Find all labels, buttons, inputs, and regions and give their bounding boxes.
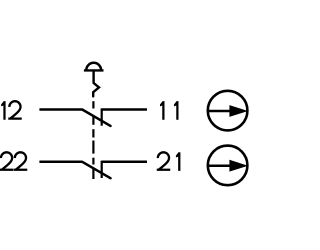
wire terminal 22 xyxy=(39,161,82,164)
terminal label 21 xyxy=(157,152,181,171)
fixed contact bar xyxy=(101,108,103,125)
terminal label 12 xyxy=(1,101,22,120)
wire terminal 12 xyxy=(39,108,82,111)
turn-to-release symbol (circle with arrow) bottom xyxy=(208,146,248,186)
NC contact 21-22 xyxy=(39,161,147,179)
NC contact 11-12 xyxy=(39,108,147,126)
latching trip zigzag xyxy=(93,83,99,96)
pushbutton mushroom head actuator xyxy=(84,63,104,71)
movable contact arm xyxy=(82,162,110,178)
fixed contact bar xyxy=(101,161,103,178)
terminal label 22 xyxy=(0,152,27,169)
turn-to-release symbol (circle with arrow) top xyxy=(208,91,248,131)
terminal label 11 xyxy=(160,101,179,120)
actuator stem xyxy=(92,70,94,83)
mechanical link (dashed) xyxy=(92,101,94,179)
movable contact arm xyxy=(82,110,110,126)
wire terminal 21 xyxy=(102,161,147,164)
wire terminal 11 xyxy=(102,108,147,111)
